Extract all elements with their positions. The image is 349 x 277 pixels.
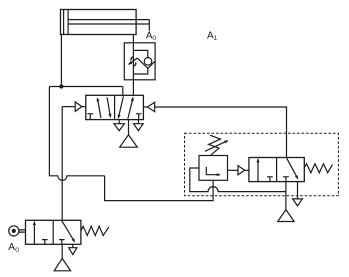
svg-text:0: 0 bbox=[152, 35, 156, 42]
svg-text:0: 0 bbox=[15, 247, 19, 254]
svg-text:1: 1 bbox=[214, 35, 218, 42]
